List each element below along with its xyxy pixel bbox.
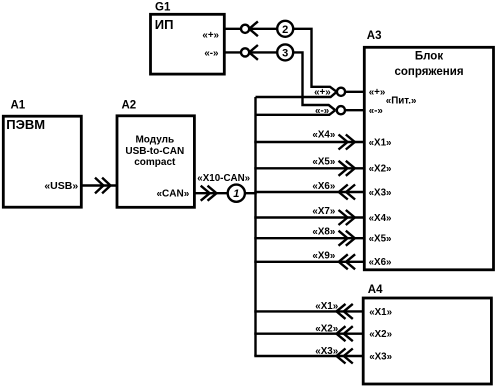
svg-text:«X1»: «X1» (369, 137, 392, 148)
svg-text:«X10-CAN»: «X10-CAN» (197, 173, 250, 184)
connector chevron USB (double, right) (95, 178, 111, 194)
wire: group line to «-» merge point (256, 110, 336, 115)
block A1 (ПЭВМ) (3, 116, 81, 207)
socket fork «-» (G1 side) (249, 45, 258, 60)
wire USB: A1 to A2 (81, 184, 117, 186)
text Модуль USB-to-CAN compact (125, 134, 184, 168)
svg-text:3: 3 (282, 47, 288, 59)
wire: socket to cable circle 3 (249, 51, 277, 53)
socket circle «+» (A3 side) (337, 88, 345, 96)
connector chevron A4 X1 (double, left) (337, 304, 353, 319)
svg-text:«X8»: «X8» (312, 227, 335, 238)
svg-text:«X4»: «X4» (312, 130, 335, 141)
wire: circle 3 to «-» merge point (293, 52, 335, 110)
svg-text:«X5»: «X5» (312, 157, 335, 168)
wire: circle 1 to group line (245, 192, 257, 194)
connector chevron X6 (double, left) (339, 185, 355, 200)
wire: group line top to «+» merge point (256, 92, 337, 97)
wire G1 «+» output (224, 28, 241, 30)
wire CAN: A2 to circle 1 (194, 192, 227, 194)
svg-text:«+»: «+» (202, 30, 219, 41)
svg-text:compact: compact (134, 157, 176, 168)
text Блок сопряжения (394, 51, 463, 79)
svg-text:«X3»: «X3» (369, 187, 392, 198)
wire row X8 (254, 237, 364, 239)
svg-text:A2: A2 (122, 99, 137, 111)
wire row A4 X1 (254, 310, 363, 312)
svg-text:«X6»: «X6» (312, 181, 335, 192)
svg-text:A1: A1 (11, 99, 26, 111)
connector chevron A4 X2 (double, left) (337, 326, 353, 341)
socket circle «+» (G1 side) (241, 25, 249, 33)
svg-text:«+»: «+» (314, 87, 331, 98)
svg-text:«-»: «-» (204, 48, 219, 59)
svg-text:«Пит.»: «Пит.» (386, 95, 417, 106)
svg-text:ПЭВМ: ПЭВМ (6, 117, 45, 132)
svg-text:«X2»: «X2» (369, 164, 392, 175)
wire row X5 (254, 167, 364, 169)
socket circle «-» (A3 side) (337, 106, 345, 114)
svg-text:«-»: «-» (369, 106, 384, 117)
svg-text:Модуль: Модуль (135, 134, 174, 145)
svg-text:2: 2 (282, 24, 288, 36)
socket fork «+» (G1 side) (249, 21, 258, 36)
connector chevron X8 (double, right) (339, 231, 355, 246)
svg-text:«X4»: «X4» (369, 213, 392, 224)
svg-text:«X7»: «X7» (312, 206, 335, 217)
block G1 (ИП) (151, 14, 225, 74)
block A4 (363, 298, 491, 384)
svg-text:«X9»: «X9» (312, 250, 335, 261)
svg-text:«X1»: «X1» (315, 301, 338, 312)
block A3 (Блок сопряжения) (364, 47, 493, 269)
svg-text:«X3»: «X3» (369, 351, 392, 362)
group line (vertical bus) (254, 97, 256, 356)
svg-text:«X5»: «X5» (369, 234, 392, 245)
svg-text:«X2»: «X2» (315, 324, 338, 335)
connector chevron A4 X3 (double, left) (337, 349, 353, 364)
svg-text:ИП: ИП (155, 17, 174, 32)
svg-text:«CAN»: «CAN» (157, 189, 190, 200)
svg-text:G1: G1 (155, 2, 171, 14)
wire: socket to A3 «-» port (345, 109, 364, 111)
wire: circle 2 to «+» merge point (293, 29, 337, 92)
cable circle 3 (277, 44, 293, 60)
block A2 (Модуль USB-to-CAN compact) (117, 116, 194, 208)
connector chevron X5 (double, right) (339, 161, 355, 176)
wire row A4 X3 (254, 355, 363, 357)
wire: socket to cable circle 2 (249, 28, 277, 30)
wire row X6 (254, 191, 364, 193)
svg-text:«X2»: «X2» (369, 329, 392, 340)
wire row X7 (254, 216, 364, 218)
wire row A4 X2 (254, 333, 363, 335)
wire row X4 (254, 141, 364, 143)
svg-text:A4: A4 (368, 284, 383, 296)
wire G1 «-» output (224, 51, 241, 53)
svg-text:«+»: «+» (369, 87, 386, 98)
cable circle 1 (228, 185, 245, 202)
svg-text:«USB»: «USB» (44, 180, 78, 192)
socket circle «-» (G1 side) (241, 48, 249, 56)
cable circle 2 (277, 21, 293, 37)
wire row X9 (254, 261, 364, 263)
svg-text:Блок: Блок (415, 51, 443, 63)
svg-text:«X1»: «X1» (369, 307, 392, 318)
connector chevron X9 (double, left) (339, 254, 355, 269)
connector chevron CAN (double, right) (201, 186, 217, 201)
svg-text:«-»: «-» (315, 106, 330, 117)
svg-text:A3: A3 (367, 30, 382, 42)
svg-text:USB-to-CAN: USB-to-CAN (125, 146, 184, 157)
wire: socket to A3 «+» port (345, 91, 364, 93)
svg-text:сопряжения: сопряжения (394, 66, 463, 78)
connector chevron X4 (double, right) (339, 135, 355, 150)
svg-text:«X6»: «X6» (369, 257, 392, 268)
connector chevron X7 (double, right) (339, 210, 355, 225)
svg-text:1: 1 (233, 188, 239, 200)
svg-text:«X3»: «X3» (315, 346, 338, 357)
